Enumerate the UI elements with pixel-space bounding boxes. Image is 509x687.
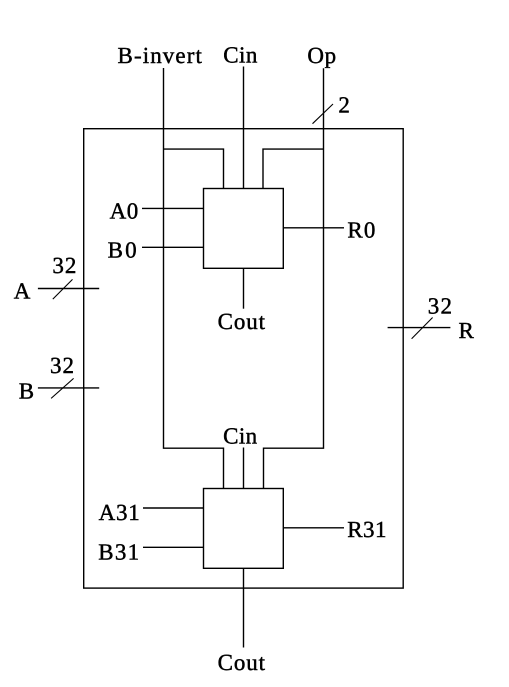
svg-text:32: 32 bbox=[50, 353, 75, 378]
svg-text:2: 2 bbox=[338, 93, 350, 118]
svg-text:B: B bbox=[19, 378, 34, 403]
svg-text:B-invert: B-invert bbox=[118, 43, 203, 68]
svg-text:B0: B0 bbox=[108, 237, 139, 262]
svg-text:Cout: Cout bbox=[218, 650, 266, 675]
svg-text:R0: R0 bbox=[347, 218, 376, 243]
svg-text:A: A bbox=[14, 279, 31, 304]
svg-text:Cin: Cin bbox=[223, 43, 258, 68]
svg-text:A31: A31 bbox=[99, 500, 141, 525]
svg-text:R: R bbox=[459, 318, 475, 343]
svg-text:32: 32 bbox=[52, 253, 77, 278]
svg-text:Cin: Cin bbox=[223, 423, 258, 448]
svg-text:A0: A0 bbox=[110, 198, 139, 223]
svg-text:Op: Op bbox=[307, 43, 336, 68]
svg-text:B31: B31 bbox=[98, 539, 140, 564]
svg-text:R31: R31 bbox=[347, 517, 387, 542]
svg-text:Cout: Cout bbox=[218, 309, 266, 334]
svg-text:32: 32 bbox=[428, 293, 453, 318]
